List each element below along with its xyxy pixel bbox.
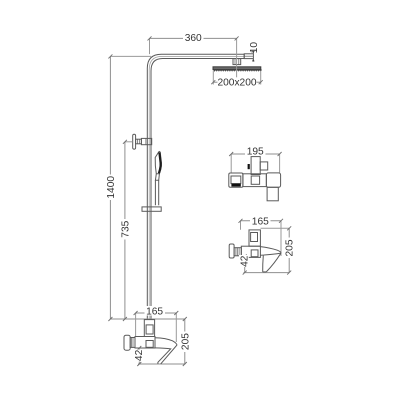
detail1 center square bbox=[251, 176, 259, 184]
dim 1400 top extension bbox=[110, 55, 151, 57]
dim 1400 line bbox=[109, 56, 111, 319]
svg-text:205: 205 bbox=[285, 239, 296, 256]
dim 200x200 extensions bbox=[212, 71, 214, 85]
detail2 dim 165 line bbox=[241, 220, 282, 222]
svg-text:735: 735 bbox=[120, 220, 131, 237]
detail1 wall hatch bbox=[231, 184, 240, 187]
head connector bracket bbox=[233, 59, 241, 65]
label 205 column bbox=[180, 332, 191, 353]
detail1 down spout bbox=[267, 187, 278, 201]
detail2 cascade left edge bbox=[262, 256, 265, 272]
detail2 knob flange bbox=[229, 244, 234, 258]
mixer spout inner edge bbox=[155, 348, 171, 364]
mixer knob flange bbox=[124, 335, 130, 350]
shower column pipe inner wall bbox=[151, 59, 244, 321]
dimension tick marks bbox=[108, 36, 291, 366]
svg-text:165: 165 bbox=[146, 307, 163, 318]
label 360 bbox=[183, 33, 204, 45]
detail2 dim 205 line bbox=[288, 228, 290, 272]
svg-text:205: 205 bbox=[180, 333, 191, 350]
mixer upper block inner bbox=[146, 325, 153, 334]
detail1 wall flange inner bbox=[231, 176, 241, 184]
dim 165 left extension bbox=[135, 313, 137, 337]
detail2 cascade right edge bbox=[266, 253, 281, 272]
detail2 body inner square bbox=[251, 250, 258, 257]
arm end piece bbox=[244, 54, 253, 59]
label 42 detail2 bbox=[239, 255, 250, 267]
detail2 spout blade upper edge bbox=[260, 247, 281, 254]
svg-text:360: 360 bbox=[185, 33, 202, 44]
svg-text:165: 165 bbox=[252, 217, 269, 228]
svg-text:200x200: 200x200 bbox=[217, 78, 256, 89]
svg-text:195: 195 bbox=[247, 147, 264, 158]
dim 735 line bbox=[124, 142, 126, 319]
label 735 bbox=[120, 219, 131, 240]
detail2 bottom reference bbox=[244, 272, 290, 274]
dimension texts bbox=[106, 33, 296, 362]
detail2 upper block inner bbox=[251, 233, 258, 242]
dim 360 center extension bbox=[236, 38, 238, 77]
overhead shower head plate bbox=[213, 67, 261, 70]
detail2 dim 165 left extension bbox=[240, 221, 242, 230]
wall supply bracket stem bbox=[136, 139, 142, 144]
detail2 dim 205 top extension bbox=[261, 227, 290, 229]
detail1 cartridge bbox=[251, 157, 260, 175]
mixer knob stem bbox=[130, 338, 135, 348]
detail1 right small box bbox=[260, 162, 268, 170]
svg-text:42: 42 bbox=[239, 255, 250, 267]
label 165 detail2 bbox=[250, 216, 271, 228]
detail2 upper block bbox=[249, 230, 260, 246]
shower column pipe outer wall bbox=[147, 54, 244, 320]
label 195 bbox=[245, 146, 266, 158]
detail2 dim 165 right extension bbox=[280, 221, 282, 256]
detail2 body bbox=[241, 246, 260, 257]
dim 200x200 line bbox=[213, 81, 218, 83]
dim 10 line with arrows bbox=[252, 51, 254, 62]
hand shower head bbox=[155, 151, 161, 173]
svg-text:42: 42 bbox=[134, 349, 145, 361]
dim 360 line bbox=[150, 37, 237, 39]
detail2 knob stem bbox=[234, 248, 241, 256]
detail1 wall flange bbox=[229, 173, 243, 187]
label 42 column bbox=[134, 349, 145, 361]
detail1 black mark bbox=[248, 164, 250, 169]
svg-text:10: 10 bbox=[249, 42, 260, 54]
bottom reference line (1400/735/205 top) bbox=[110, 318, 184, 320]
svg-text:1400: 1400 bbox=[106, 176, 117, 199]
mixer body inner square bbox=[146, 341, 153, 348]
detail1 dim 195 line bbox=[231, 153, 279, 155]
mixer spout outer edge bbox=[155, 338, 177, 364]
arm end cap bbox=[243, 54, 245, 58]
detail1 right block bbox=[266, 173, 280, 187]
slider bracket bbox=[142, 207, 161, 211]
detail1 body band bbox=[243, 174, 267, 187]
wall supply bracket block bbox=[141, 138, 151, 144]
hand shower head dark face bbox=[159, 152, 161, 173]
wall supply bracket flange bbox=[133, 134, 136, 149]
detail2 dim 42 line bbox=[244, 256, 246, 272]
dim 205 column line bbox=[184, 319, 186, 364]
detail1 dim 195 right extension bbox=[279, 154, 281, 173]
mixer body bbox=[135, 337, 155, 349]
bottom reference line under mixer bbox=[138, 363, 185, 365]
dim 360 extension left bbox=[149, 38, 151, 54]
detail2 cascade foot bbox=[263, 271, 267, 273]
label 200x200 bbox=[217, 77, 256, 88]
label 165 column bbox=[145, 306, 166, 318]
dim 42 line bbox=[138, 348, 140, 364]
dim 165 (column mixer) line bbox=[136, 312, 177, 314]
shower column pipe middle line bbox=[149, 56, 244, 320]
dim 165 right extension bbox=[175, 313, 177, 342]
label 205 detail2 bbox=[284, 238, 295, 259]
detail1 dim 195 left extension bbox=[230, 154, 232, 173]
detail2 spout blade lower edge bbox=[260, 253, 281, 255]
hand shower handle bbox=[155, 180, 158, 205]
mixer upper block bbox=[144, 320, 154, 337]
hand shower neck bbox=[155, 174, 159, 181]
shower head nozzle serration bbox=[214, 70, 262, 71]
dim 735 top extension bbox=[125, 141, 133, 143]
label 1400 bbox=[106, 175, 117, 201]
